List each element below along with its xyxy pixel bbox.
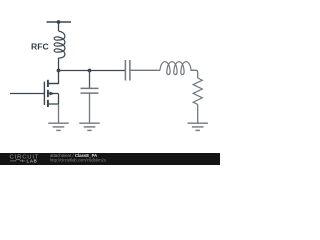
node drain junction dot xyxy=(57,69,61,73)
wire drain node horizontal xyxy=(59,70,126,72)
capacitor C2 series xyxy=(125,60,129,81)
svg-text:LAB: LAB xyxy=(27,158,38,163)
ground shunt cap xyxy=(79,123,99,130)
svg-text:RFC: RFC xyxy=(31,42,49,52)
wire shunt cap bottom xyxy=(89,93,91,123)
wire gate input xyxy=(10,93,45,95)
channel segment drain xyxy=(47,80,49,87)
node VDD supply bar xyxy=(47,21,72,23)
wire cap to inductor xyxy=(130,69,160,71)
capacitor C1 shunt xyxy=(81,88,99,93)
ground resistor xyxy=(188,123,208,130)
inductor RFC xyxy=(54,31,65,58)
transistor M1 NMOS xyxy=(44,80,58,107)
body arrow xyxy=(50,92,56,96)
wire source down xyxy=(58,104,60,123)
channel segment body xyxy=(47,90,49,97)
gate bar xyxy=(43,82,45,106)
footer bar xyxy=(0,153,220,165)
wire drain elbow xyxy=(48,71,59,84)
ground source xyxy=(48,123,68,130)
svg-text:http://circuitlab.com/c6db9m2u: http://circuitlab.com/c6db9m2u xyxy=(50,158,107,163)
wire resistor to ground xyxy=(197,104,199,123)
junction dot at supply xyxy=(57,20,61,24)
inductor L1 series xyxy=(160,62,191,75)
wire supply to RFC xyxy=(58,22,60,31)
channel segment source xyxy=(47,100,49,107)
drain tap xyxy=(48,83,59,85)
wire inductor to resistor elbow xyxy=(191,70,198,78)
source tap xyxy=(48,103,59,105)
resistor R1 load xyxy=(193,78,202,104)
wire RFC to drain node xyxy=(58,58,60,71)
body line xyxy=(48,93,59,95)
wire shunt cap top xyxy=(89,71,91,89)
body to source wire xyxy=(58,94,60,105)
junction dot shunt cap xyxy=(88,69,92,73)
